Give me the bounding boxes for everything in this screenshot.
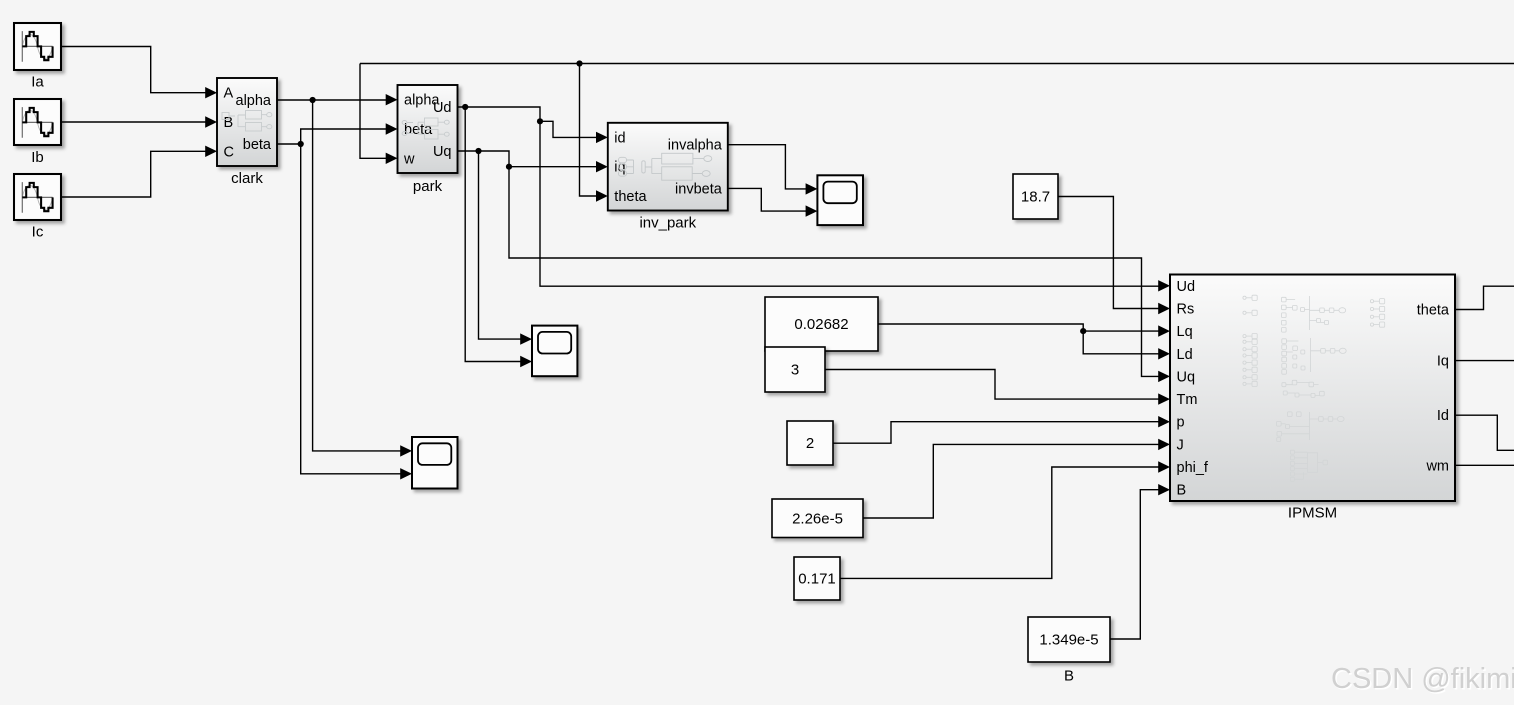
svg-text:2.26e-5: 2.26e-5 — [792, 510, 843, 527]
constant block 1.349e-5 (B) — [1028, 617, 1110, 662]
wire top bus to inv_park theta input — [580, 64, 608, 202]
svg-text:beta: beta — [243, 137, 272, 153]
wire clark alpha to park alpha — [277, 94, 398, 105]
svg-text:Iq: Iq — [1437, 354, 1449, 370]
subsystem block IPMSM — [1170, 275, 1455, 502]
source block Ia — [14, 23, 61, 70]
svg-text:3: 3 — [791, 362, 799, 379]
svg-text:B: B — [224, 115, 234, 131]
wire IPMSM wm output — [1455, 464, 1514, 466]
svg-text:1.349e-5: 1.349e-5 — [1039, 632, 1098, 649]
svg-text:Uq: Uq — [1177, 369, 1196, 385]
svg-text:CSDN @fikimi: CSDN @fikimi — [1331, 663, 1514, 695]
wire park Uq to IPMSM Uq (long) — [458, 151, 1171, 382]
svg-text:iq: iq — [614, 160, 625, 176]
wire clark beta branch to scope2 input2 — [301, 144, 412, 479]
wire constant 3 to IPMSM Tm — [825, 370, 1170, 405]
wire clark beta to park beta — [277, 123, 398, 144]
wire branch to IPMSM Ld — [1083, 331, 1170, 359]
inv_park content preview — [619, 153, 712, 180]
junction Lq/Ld — [1080, 328, 1086, 334]
svg-text:wm: wm — [1425, 458, 1449, 474]
svg-text:Ic: Ic — [32, 224, 44, 241]
wire constant 2.26e-5 to IPMSM J — [863, 439, 1170, 518]
junction clark alpha branch — [310, 97, 316, 103]
svg-text:Ib: Ib — [31, 149, 44, 166]
wire constant 1.349e-5 to IPMSM B — [1110, 484, 1170, 639]
watermark CSDN @fikimi — [1331, 663, 1514, 697]
wire constant 0.02682 to IPMSM Lq — [878, 324, 1170, 337]
junction clark beta branch — [298, 141, 304, 147]
svg-text:theta: theta — [614, 189, 647, 205]
wire constant 0.171 to IPMSM phi_f — [840, 461, 1170, 578]
svg-text:invalpha: invalpha — [668, 138, 723, 154]
wire Ic to clark C — [61, 146, 217, 197]
junction Ud / inv_park id branch — [537, 118, 543, 124]
source block Ic — [14, 174, 61, 220]
junction park Ud at port — [462, 104, 468, 110]
wire Ud branch to scope1 input2 — [465, 107, 532, 367]
svg-text:inv_park: inv_park — [639, 215, 696, 232]
constant block 0.171 — [794, 557, 840, 600]
svg-text:B: B — [1064, 668, 1074, 685]
wire clark alpha branch to scope2 input1 — [313, 100, 412, 457]
constant block 2.26e-5 — [772, 499, 863, 538]
svg-text:Ud: Ud — [1177, 279, 1196, 295]
svg-text:Ia: Ia — [31, 74, 44, 91]
wire inv_park invbeta to scope3 input2 — [728, 188, 818, 216]
svg-text:alpha: alpha — [236, 93, 272, 109]
junction top bus / theta branch — [576, 60, 582, 66]
svg-text:B: B — [1177, 483, 1187, 499]
svg-text:A: A — [224, 86, 234, 102]
svg-text:id: id — [614, 130, 625, 146]
park content preview — [402, 118, 449, 139]
svg-text:park: park — [413, 178, 443, 195]
junction park Uq at port — [475, 148, 481, 154]
wire IPMSM Id output — [1455, 415, 1514, 450]
svg-text:invbeta: invbeta — [675, 181, 723, 197]
svg-text:Rs: Rs — [1177, 302, 1195, 318]
svg-text:Ld: Ld — [1177, 347, 1193, 363]
constant block 3 — [765, 347, 825, 392]
svg-text:0.02682: 0.02682 — [794, 316, 848, 333]
svg-text:J: J — [1177, 437, 1184, 453]
scope block (invalpha/invbeta scope) — [817, 175, 863, 225]
wire Uq branch to inv_park iq — [509, 161, 608, 172]
svg-text:2: 2 — [806, 435, 814, 452]
wire Uq branch to scope1 input1 — [479, 151, 533, 345]
wire Ud branch to inv_park id — [540, 121, 608, 143]
constant block 18.7 — [1013, 174, 1058, 219]
svg-text:p: p — [1177, 415, 1185, 431]
svg-text:theta: theta — [1417, 303, 1450, 319]
constant block 0.02682 — [765, 297, 878, 351]
svg-text:clark: clark — [231, 170, 263, 187]
wire park Ud to IPMSM Ud (long) — [458, 107, 1171, 291]
subsystem block inv_park — [608, 123, 728, 211]
junction Uq / inv_park iq branch — [506, 164, 512, 170]
constant block 2 — [787, 421, 833, 465]
wire w feedback (top bus) — [360, 63, 1514, 65]
wire Ib to clark B — [61, 116, 217, 127]
wire IPMSM Iq output — [1455, 360, 1514, 362]
scope block (alpha/beta scope) — [412, 437, 458, 489]
svg-text:0.171: 0.171 — [798, 571, 836, 588]
svg-text:IPMSM: IPMSM — [1288, 505, 1337, 522]
svg-text:Ud: Ud — [433, 100, 452, 116]
wire constant 18.7 to IPMSM Rs — [1058, 197, 1170, 315]
svg-text:w: w — [403, 151, 415, 167]
svg-text:18.7: 18.7 — [1021, 189, 1050, 206]
source block Ib — [14, 99, 61, 145]
clark content preview — [222, 111, 272, 132]
svg-text:Tm: Tm — [1177, 392, 1198, 408]
svg-text:phi_f: phi_f — [1177, 460, 1209, 476]
svg-text:beta: beta — [404, 122, 433, 138]
scope block (Ud/Uq scope) — [532, 326, 577, 377]
svg-text:Uq: Uq — [433, 144, 452, 160]
wire top bus to park w input — [360, 64, 398, 165]
subsystem block clark — [217, 78, 277, 166]
svg-text:Id: Id — [1437, 408, 1449, 424]
subsystem block park — [398, 85, 458, 173]
wire IPMSM theta output — [1455, 286, 1514, 309]
IPMSM content preview — [1243, 295, 1385, 481]
wire inv_park invalpha to scope3 input1 — [728, 145, 818, 195]
wire constant 2 to IPMSM p — [833, 416, 1170, 443]
wire Ia to clark A — [61, 47, 217, 99]
svg-text:Lq: Lq — [1177, 324, 1193, 340]
svg-text:C: C — [224, 144, 234, 160]
